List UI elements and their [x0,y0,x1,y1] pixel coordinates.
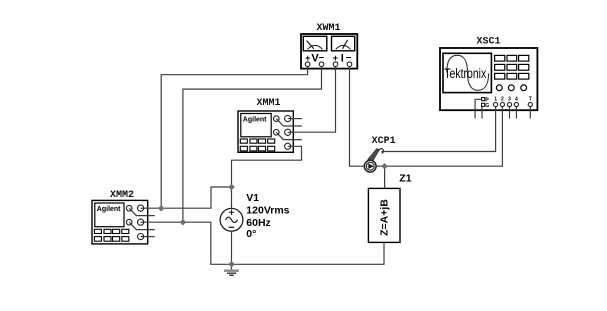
svg-text:1: 1 [494,97,497,103]
svg-text:Z=A+jB: Z=A+jB [379,199,391,236]
svg-text:XMM1: XMM1 [256,98,280,109]
svg-text:I: I [341,53,344,65]
svg-text:4: 4 [515,97,518,103]
svg-text:XSC1: XSC1 [476,37,500,48]
svg-text:V1: V1 [246,192,259,204]
svg-text:Agilent: Agilent [243,116,267,123]
svg-text:Z1: Z1 [399,173,411,185]
svg-text:T: T [529,97,532,103]
svg-text:–: – [346,52,352,63]
svg-text:+: + [333,53,338,63]
svg-text:3: 3 [508,97,511,103]
svg-text:120Vrms: 120Vrms [246,205,289,217]
svg-text:Agilent: Agilent [97,206,121,213]
svg-text:G: G [485,103,489,109]
svg-text:Tektronix: Tektronix [444,66,487,82]
svg-text:–: – [319,52,325,63]
svg-text:+: + [305,53,310,63]
svg-text:XMM2: XMM2 [110,190,134,201]
svg-text:2: 2 [501,97,504,103]
svg-text:XWM1: XWM1 [316,23,340,34]
svg-text:XCP1: XCP1 [372,136,396,147]
svg-text:0°: 0° [246,228,256,240]
